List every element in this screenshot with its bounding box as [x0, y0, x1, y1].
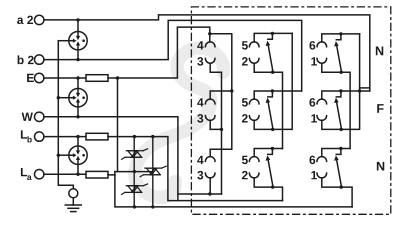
switch S1 (row1 col2)	[266, 33, 273, 71]
pin label 4 row3	[197, 156, 203, 164]
label N row1	[376, 47, 383, 56]
wire feed 5 row3	[254, 149, 282, 157]
node b2/G1	[76, 58, 79, 61]
contact 4 row1	[205, 42, 215, 47]
pin label 6 row3	[309, 156, 315, 165]
node bus/V3	[133, 205, 136, 208]
pin label 1 row1	[311, 57, 317, 65]
terminal earth	[69, 189, 78, 198]
node La/G3	[76, 173, 79, 176]
node switch top row1 col3	[339, 32, 342, 35]
node switch pivot row3 col3	[340, 185, 343, 188]
wire G2 left electrode	[58, 97, 69, 99]
node Lb/V1	[133, 135, 136, 138]
wire c4 bus col1	[210, 34, 232, 157]
node c6 bus row2 col3	[358, 89, 361, 92]
terminal E	[35, 73, 44, 82]
switch S6 (row3 col3)	[334, 149, 341, 187]
node switch pivot row1 col3	[340, 71, 343, 74]
node c4 bus row2 col1	[230, 89, 233, 92]
wire feed 5 row1	[254, 33, 292, 42]
pin label 2 row1	[242, 57, 248, 65]
ground	[65, 198, 81, 212]
wire G1 left electrode	[58, 40, 69, 42]
wire 2 row2 bottom	[254, 120, 273, 129]
terminal Lb label	[21, 130, 27, 138]
terminal W	[35, 112, 44, 121]
contact 5 row1	[249, 42, 259, 47]
terminal Lb	[35, 132, 44, 141]
node switch pivot row2 col3	[340, 128, 343, 131]
switch S5 (row2 col3)	[334, 91, 341, 129]
switch S2 (row2 col2)	[266, 91, 273, 129]
node feed 4 row1	[208, 32, 211, 35]
switch S4 (row1 col3)	[334, 34, 341, 72]
pin label 2 row2	[242, 114, 248, 122]
node G3/earth line	[57, 154, 60, 157]
node c3 bus row2 col1	[220, 128, 223, 131]
resistor R1 (E row)	[86, 75, 108, 82]
contact 1 row3	[317, 173, 327, 178]
wire 2 row3 bottom	[254, 178, 282, 201]
suppressor diode V3 (mid rail to bottom bus)	[122, 172, 148, 207]
wire 1 row3 bottom	[322, 178, 352, 207]
suppressor diode V1 (Lb to mid rail)	[122, 137, 148, 172]
pin label 1 row2	[311, 114, 317, 122]
pin label 3 row2	[197, 114, 203, 123]
pin label 5 row3	[242, 156, 248, 164]
pin label 3 row3	[197, 171, 203, 180]
terminal a2 label	[17, 16, 33, 25]
label N row3	[377, 162, 384, 171]
terminal E label	[27, 74, 34, 82]
node switch pivot row3 col2	[271, 185, 274, 188]
contact 4 row2	[205, 99, 215, 104]
node switch top row2 col3	[339, 89, 342, 92]
node E after resistor	[116, 76, 119, 79]
wire a2 to c6 bus stub	[360, 87, 370, 89]
wire a2 row	[44, 15, 370, 91]
node switch top row2 col2	[271, 89, 274, 92]
resistor R2 (Lb row)	[86, 133, 108, 140]
contact 6 row2	[317, 99, 327, 104]
wire W row	[44, 117, 178, 201]
wire c3 bus bottom col1	[178, 193, 222, 195]
contact 3 row3	[205, 173, 215, 178]
node c3 row3 col1	[208, 192, 211, 195]
contact 4 row3	[205, 157, 215, 162]
node mid rail V1/V3	[133, 170, 136, 173]
watermark	[135, 48, 224, 197]
pin label 6 row2	[309, 98, 315, 107]
node G2/earth line	[57, 96, 60, 99]
wire La row right to ground bus	[108, 175, 352, 207]
wire E row left	[44, 77, 86, 79]
contact 5 row2	[249, 99, 259, 104]
gas discharge tube G3 (Lb-La)	[69, 137, 87, 175]
contact 1 row2	[317, 116, 327, 121]
pin label 4 row1	[197, 41, 203, 49]
pin label 3 row1	[197, 57, 203, 66]
pin label 6 row1	[309, 41, 315, 50]
wire 1 row1 bottom	[322, 63, 350, 148]
pin label 2 row3	[242, 171, 248, 179]
contact 2 row3	[249, 173, 259, 178]
node switch top row1 col2	[271, 32, 274, 35]
pin label 4 row2	[197, 98, 203, 106]
node bus/V2	[151, 205, 154, 208]
node switch pivot row2 col2	[271, 128, 274, 131]
suppressor diode V2 (Lb to bottom bus)	[140, 137, 166, 207]
node W/G2	[76, 115, 79, 118]
terminal a2	[35, 15, 44, 24]
node Lb/G3	[76, 135, 79, 138]
wire Lb row right	[108, 137, 283, 201]
contact 5 row3	[249, 157, 259, 162]
wire feed 6 row2	[322, 91, 370, 99]
wire E row right	[108, 27, 210, 78]
wire 3 row2 to bus	[210, 120, 221, 129]
contact 3 row1	[205, 58, 215, 63]
node switch pivot row1 col2	[271, 71, 274, 74]
node E/G2	[76, 76, 79, 79]
node switch top row3 col2	[271, 147, 274, 150]
node a2/G1	[76, 18, 79, 21]
wire b2 row	[44, 20, 302, 91]
wire earth line	[58, 41, 73, 189]
wire c5 bus col2	[273, 33, 293, 129]
pin label 1 row3	[311, 171, 317, 179]
label F row2	[377, 104, 383, 113]
contact 2 row1	[249, 58, 259, 63]
wire feed 4 row2 col1	[210, 91, 232, 99]
wire 3 row1 to bus	[210, 63, 221, 194]
wire feed 6 row3	[322, 149, 350, 157]
gas discharge tube G1 (a2-b2)	[69, 20, 87, 60]
terminal La label	[21, 168, 27, 176]
wire feed 5 row2	[254, 91, 302, 99]
resistor R3 (La row)	[86, 171, 108, 178]
pin label 5 row2	[242, 98, 248, 106]
wire La row left	[44, 173, 86, 175]
wire 1 row2 bottom	[322, 120, 341, 129]
contact 3 row2	[205, 116, 215, 121]
terminal La	[35, 170, 44, 179]
wire 2 row1 bottom	[254, 63, 282, 148]
terminal W label	[22, 113, 33, 121]
terminal b2	[35, 55, 44, 64]
contact 2 row2	[249, 116, 259, 121]
switch S3 (row3 col2)	[266, 149, 273, 187]
wire feed 6 row1	[322, 34, 360, 42]
wire E node down to TVS mid rail	[117, 78, 119, 172]
wire c6 bus col3	[341, 34, 359, 129]
node Lb/V2	[151, 135, 154, 138]
contact 6 row1	[317, 42, 327, 47]
node switch top row3 col3	[339, 147, 342, 150]
wire Lb row left	[44, 136, 86, 138]
contact 6 row3	[317, 157, 327, 162]
pin label 5 row1	[242, 41, 248, 49]
wire G3 left electrode	[58, 154, 69, 156]
contact 1 row1	[317, 58, 327, 63]
gas discharge tube G2 (E-W)	[69, 78, 87, 117]
dash-dot enclosure	[191, 7, 390, 214]
terminal b2 label	[18, 55, 34, 64]
wire 3 row3 to bottom	[209, 178, 211, 194]
